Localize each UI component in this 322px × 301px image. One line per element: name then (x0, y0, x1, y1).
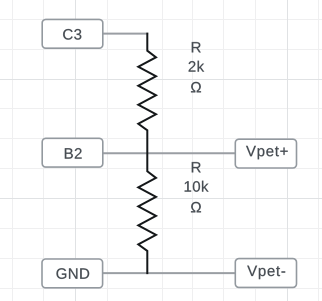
terminal Vpet- (235, 259, 296, 288)
resistor R2 10k (138, 152, 156, 274)
wire GND to Vpet- (102, 272, 235, 274)
label R2 value 10k (185, 181, 209, 192)
label R1 unit ohm (191, 82, 201, 92)
label R1 designator R (192, 42, 201, 52)
label R2 designator R (192, 162, 201, 172)
terminal Vpet+ (235, 139, 296, 168)
label R1 value 2k (189, 61, 205, 72)
terminal C3 (42, 19, 103, 48)
wire B2 to Vpet+ (103, 152, 235, 154)
terminal GND (42, 259, 103, 288)
resistor R1 2k (138, 33, 156, 152)
terminal B2 (42, 138, 103, 167)
wire C3 to resistor chain (103, 33, 149, 35)
label R2 unit ohm (191, 202, 201, 212)
